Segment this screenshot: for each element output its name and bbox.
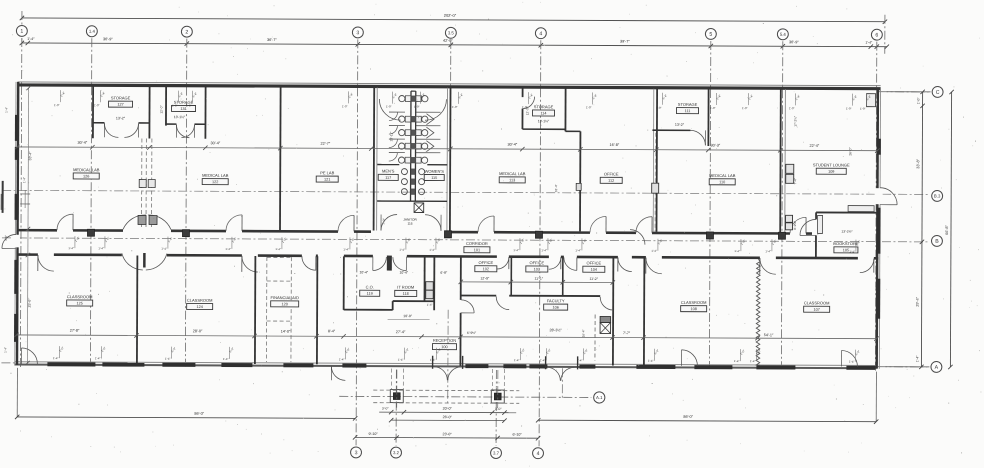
wall student lounge west: [780, 89, 785, 232]
double door corridor-lab122: [123, 215, 171, 230]
annotation specks corridor: [68, 236, 861, 254]
room OFFICE 103: [526, 260, 548, 272]
door classroom 107 north2: [860, 259, 874, 273]
svg-text:14′-0″: 14′-0″: [281, 330, 291, 334]
lavatory fixtures: [401, 169, 424, 195]
svg-text:1′-4″: 1′-4″: [734, 359, 740, 363]
svg-text:101: 101: [474, 248, 480, 252]
wall storage 131 left: [165, 87, 167, 126]
grid bubble B: [931, 235, 942, 246]
door classroom 108 north: [646, 258, 662, 274]
svg-text:3.2: 3.2: [393, 450, 400, 455]
double door corridor-classrooms: [122, 253, 167, 270]
room STORAGE 114: [532, 104, 554, 116]
svg-text:1′-4″: 1′-4″: [575, 248, 581, 252]
grid line 5: [709, 41, 710, 369]
svg-text:119: 119: [367, 292, 373, 296]
grid line 3.5: [449, 40, 452, 232]
storage 111 door: [690, 130, 705, 145]
svg-text:36′-9″: 36′-9″: [103, 37, 113, 41]
door classroom 107 south: [841, 351, 857, 367]
svg-text:8′-9½″: 8′-9½″: [793, 220, 797, 230]
svg-text:1′-0″: 1′-0″: [186, 104, 192, 108]
svg-text:120: 120: [281, 302, 287, 306]
svg-text:30′-3″: 30′-3″: [711, 143, 721, 147]
svg-text:C: C: [936, 90, 940, 96]
svg-text:116: 116: [407, 222, 412, 226]
svg-text:1′-4″: 1′-4″: [3, 347, 7, 353]
svg-text:1′-4″: 1′-4″: [540, 358, 546, 362]
svg-text:STORAGE: STORAGE: [678, 102, 698, 107]
grid line 2: [185, 39, 186, 367]
door financial aid: [302, 256, 316, 270]
svg-text:126: 126: [83, 175, 89, 179]
co door: [373, 256, 387, 270]
svg-text:3: 3: [355, 450, 358, 456]
svg-text:13′-2″: 13′-2″: [116, 116, 126, 120]
room MEDICAL LAB 110: [709, 173, 736, 185]
grid bubble 3.5: [445, 27, 456, 38]
main entry doors east pair: [547, 367, 575, 381]
svg-text:17′-2¾″: 17′-2¾″: [793, 115, 797, 127]
restroom mid wall: [377, 163, 447, 165]
svg-text:1′-0″: 1′-0″: [94, 103, 100, 107]
door medical lab 126: [57, 214, 73, 230]
janitor sink: [414, 203, 424, 213]
svg-text:39′-7″: 39′-7″: [620, 40, 630, 44]
top segment dimension line: [20, 37, 889, 49]
exterior door right wall: [875, 188, 898, 205]
svg-text:1′-0″: 1′-0″: [742, 106, 748, 110]
svg-text:1′-4″: 1′-4″: [430, 358, 436, 362]
svg-text:B: B: [935, 239, 939, 245]
svg-text:OFFICE: OFFICE: [604, 171, 619, 176]
door hall 618: [618, 258, 632, 272]
wall lab113-office112: [565, 131, 581, 231]
svg-text:6: 6: [875, 33, 878, 39]
wall storage 114 right: [564, 88, 566, 131]
svg-text:1′-4″: 1′-4″: [651, 249, 657, 253]
room MENS 117: [378, 169, 398, 181]
grid line B.3: [2, 190, 930, 194]
svg-text:STUDENT LOUNGE: STUDENT LOUNGE: [813, 162, 850, 167]
svg-text:1′-4″: 1′-4″: [513, 248, 519, 252]
svg-text:1.4: 1.4: [89, 29, 96, 34]
reception annotations: [427, 303, 477, 335]
svg-text:1′-4″: 1′-4″: [95, 356, 101, 360]
svg-text:54′-1″: 54′-1″: [764, 333, 774, 337]
door classroom 124: [242, 256, 258, 272]
grid line B: [2, 238, 930, 242]
storage 114 sill: [522, 128, 565, 130]
bookstore door: [800, 219, 816, 235]
grid line 1.4: [90, 38, 91, 366]
svg-text:20′-11″: 20′-11″: [389, 131, 393, 142]
svg-text:1′-4″: 1′-4″: [750, 359, 756, 363]
room PE LAB 121: [316, 170, 338, 182]
svg-text:86′-0″: 86′-0″: [194, 412, 204, 416]
svg-text:106: 106: [552, 306, 558, 310]
svg-text:OFFICE: OFFICE: [479, 260, 494, 265]
svg-text:1′-0″: 1′-0″: [586, 105, 592, 109]
wall storage 127 right / chase: [148, 87, 150, 139]
bookstore west wall: [815, 212, 817, 257]
bottom dimension 86'-0" west: [15, 368, 358, 421]
annotation specks top wall: [54, 90, 872, 111]
room OFFICE 104: [583, 260, 605, 272]
svg-text:10′-0″: 10′-0″: [403, 314, 412, 318]
svg-text:1′-4″: 1′-4″: [398, 358, 404, 362]
grid line C: [879, 91, 928, 93]
svg-text:113: 113: [509, 178, 515, 182]
svg-text:2: 2: [185, 30, 188, 36]
svg-text:1′-4″: 1′-4″: [399, 248, 405, 252]
svg-text:1′-0″: 1′-0″: [860, 107, 866, 111]
door office 103: [549, 257, 561, 269]
bottom dimension 86'-0" east: [536, 370, 879, 424]
room JANITOR 116: [403, 218, 417, 226]
svg-text:3.5: 3.5: [448, 30, 455, 35]
svg-text:9′-10″: 9′-10″: [369, 432, 379, 436]
svg-text:30′-4″: 30′-4″: [78, 141, 88, 145]
columns on corridor wall: [87, 229, 785, 239]
grid line 3: [356, 39, 358, 445]
co-it suite walls: [344, 256, 435, 310]
svg-text:3′-0″: 3′-0″: [4, 235, 8, 241]
svg-text:MEDICAL LAB: MEDICAL LAB: [202, 173, 229, 178]
svg-text:1: 1: [20, 29, 23, 35]
offices west wall: [459, 257, 461, 366]
svg-text:1′-4″: 1′-4″: [68, 246, 74, 250]
storage 131 doors: [176, 125, 194, 138]
financial aid dashed partition: [266, 257, 291, 362]
svg-text:1′-0″: 1′-0″: [710, 106, 716, 110]
wall storage 111 right: [707, 89, 709, 146]
svg-text:1′-4″: 1′-4″: [541, 248, 547, 252]
left margin marks: [1, 107, 31, 353]
right overall dimension 66'-8": [944, 90, 953, 369]
svg-text:10′-4″: 10′-4″: [399, 271, 408, 275]
overall top dimension line 202'-0": [20, 11, 888, 54]
svg-text:6′-10″: 6′-10″: [513, 433, 523, 437]
janitor wall: [377, 200, 447, 202]
svg-text:31′-4″: 31′-4″: [554, 183, 558, 192]
svg-text:29′-4″: 29′-4″: [916, 296, 920, 306]
storage 127 doors: [104, 123, 138, 137]
lounge vertical dims: [793, 115, 854, 234]
svg-text:11′-2″: 11′-2″: [589, 277, 598, 281]
svg-text:1′-4″: 1′-4″: [734, 249, 740, 253]
svg-text:3′-0″: 3′-0″: [495, 407, 502, 411]
svg-text:36′-7″: 36′-7″: [267, 38, 277, 42]
svg-text:1′-4″: 1′-4″: [22, 177, 26, 183]
svg-text:36′-9″: 36′-9″: [789, 40, 799, 44]
svg-text:1′-4″: 1′-4″: [98, 246, 104, 250]
room CORRIDOR 101: [464, 241, 490, 253]
svg-text:105: 105: [843, 248, 849, 252]
door student lounge 109: [790, 217, 806, 233]
svg-text:115: 115: [431, 176, 437, 180]
wall classroom125-124: [136, 255, 138, 363]
top exterior wall: [18, 82, 881, 89]
door bottom-left corner: [21, 348, 37, 364]
svg-text:23′-0″: 23′-0″: [443, 432, 453, 436]
svg-text:1′-0″: 1′-0″: [656, 106, 662, 110]
grid bubble 1.4: [86, 26, 97, 37]
svg-text:C.O.: C.O.: [366, 284, 374, 289]
room STUDENT LOUNGE 109: [813, 162, 850, 174]
svg-text:10′-4″: 10′-4″: [359, 270, 368, 274]
svg-text:28′-0″: 28′-0″: [193, 329, 203, 333]
office 102 rear door: [496, 297, 509, 310]
svg-text:13′-1½″: 13′-1½″: [174, 115, 186, 119]
bottom grid bubble 4: [533, 448, 544, 459]
office 104 rear door: [600, 297, 613, 310]
office dimension labels: [359, 270, 615, 320]
svg-text:33′-8″: 33′-8″: [916, 158, 920, 168]
svg-text:112: 112: [608, 179, 614, 183]
it room equipment rack: [426, 282, 434, 299]
room STORAGE 131: [172, 100, 196, 112]
wall classroom124-financial aid: [254, 256, 256, 364]
svg-text:3′-0″: 3′-0″: [382, 407, 389, 411]
room OFFICE 112: [600, 171, 622, 183]
restroom west wall: [374, 87, 378, 230]
svg-text:1′-4″: 1′-4″: [915, 355, 919, 363]
svg-text:5.4: 5.4: [780, 32, 787, 37]
room CLASSROOM 125: [67, 294, 93, 306]
room BOOKSTORE 105: [833, 241, 859, 253]
svg-text:26′-0″: 26′-0″: [848, 147, 852, 156]
svg-text:1′-0″: 1′-0″: [846, 107, 852, 111]
room CLASSROOM 124: [187, 298, 213, 310]
svg-text:16′-4″: 16′-4″: [582, 329, 586, 338]
svg-text:124: 124: [196, 305, 202, 309]
grid bubble A: [931, 361, 942, 372]
svg-text:A: A: [935, 365, 939, 371]
svg-text:6′-9½″: 6′-9½″: [467, 331, 477, 335]
restroom vertical dims: [382, 131, 393, 225]
svg-text:CORRIDOR: CORRIDOR: [466, 241, 488, 246]
svg-text:27′-8″: 27′-8″: [70, 329, 80, 333]
svg-text:B.3: B.3: [934, 193, 941, 198]
svg-text:1′-4″: 1′-4″: [577, 358, 583, 362]
svg-text:86′-0″: 86′-0″: [683, 415, 693, 419]
room RECEPTION 100: [432, 338, 456, 350]
door pe lab 121: [338, 215, 354, 231]
svg-text:1′-0″: 1′-0″: [917, 97, 921, 105]
svg-text:OFFICE: OFFICE: [530, 260, 545, 265]
classroom 108 door west: [630, 230, 645, 245]
grid line A: [878, 366, 927, 368]
svg-text:CLASSROOM: CLASSROOM: [804, 300, 830, 305]
co-it door stub: [387, 256, 392, 271]
grid bubble 1: [16, 25, 27, 36]
svg-text:MEN’S: MEN’S: [382, 169, 395, 174]
movable partition classrooms 108-107: [756, 259, 760, 365]
grid bubble 5.4: [777, 29, 788, 40]
room IT ROOM 118: [395, 285, 417, 297]
svg-text:33′-4″: 33′-4″: [28, 151, 32, 161]
svg-text:122: 122: [212, 180, 218, 184]
svg-text:1′-4″: 1′-4″: [765, 249, 771, 253]
restroom corridor doors: [381, 215, 441, 231]
svg-text:109: 109: [828, 170, 834, 174]
entry recess jambs: [433, 356, 578, 370]
svg-text:108: 108: [690, 307, 696, 311]
reception door centerlines: [448, 310, 563, 406]
room FINANCIAL AID 120: [271, 295, 299, 307]
svg-text:1′-4″: 1′-4″: [343, 247, 349, 251]
svg-text:1′-0″: 1′-0″: [54, 103, 60, 107]
svg-text:1′-4″: 1′-4″: [339, 357, 345, 361]
bottom exterior wall: [14, 362, 876, 369]
room CLASSROOM 107: [804, 300, 830, 312]
door medical lab 113: [478, 216, 494, 232]
svg-text:1′-4″: 1′-4″: [429, 248, 435, 252]
svg-text:MEDICAL LAB: MEDICAL LAB: [73, 167, 100, 172]
door classroom 125: [38, 255, 54, 271]
svg-text:1′-4″: 1′-4″: [161, 247, 167, 251]
grid bubble A.1: [594, 392, 605, 403]
svg-text:118: 118: [403, 292, 409, 296]
svg-text:7′-4″: 7′-4″: [793, 177, 797, 184]
room MEDICAL LAB 122: [202, 173, 229, 185]
financial aid east wall: [316, 256, 318, 364]
svg-text:22′-7″: 22′-7″: [321, 142, 331, 146]
svg-text:RECEPTION: RECEPTION: [433, 338, 456, 343]
wall storage 114 left: [521, 109, 523, 129]
bottom grid bubble 3.7: [491, 448, 502, 459]
svg-text:1′-4″: 1′-4″: [223, 357, 229, 361]
svg-text:121: 121: [324, 178, 330, 182]
svg-text:12′-9″: 12′-9″: [480, 276, 490, 280]
svg-text:STORAGE: STORAGE: [111, 95, 131, 100]
svg-text:42′-0″: 42′-0″: [443, 39, 453, 43]
left interior vertical dims: [25, 86, 32, 365]
svg-text:1′-4″: 1′-4″: [849, 360, 855, 364]
room WOMENS 115: [424, 169, 444, 181]
svg-text:FACULTY: FACULTY: [547, 298, 565, 303]
electrical closet: [595, 314, 611, 360]
grid bubble C: [932, 86, 943, 97]
svg-text:1′-4″: 1′-4″: [849, 250, 855, 254]
svg-text:111: 111: [685, 109, 691, 113]
storage 114 door: [523, 97, 535, 109]
office divider 103-104: [562, 257, 564, 295]
door financial aid exterior: [331, 366, 345, 380]
porch column east: [491, 370, 504, 408]
svg-text:11′-1″: 11′-1″: [534, 277, 543, 281]
svg-text:125: 125: [76, 301, 82, 305]
svg-text:PE LAB: PE LAB: [320, 170, 334, 175]
wall storage 131 right: [204, 87, 206, 139]
exterior door left wall: [2, 234, 20, 248]
svg-text:202′-0″: 202′-0″: [444, 13, 457, 18]
svg-text:OFFICE: OFFICE: [587, 260, 602, 265]
corridor south wall: [17, 255, 878, 259]
room MEDICAL LAB 113: [499, 171, 526, 183]
bookstore shelving: [817, 205, 874, 233]
bottom rooms dimension chain: [14, 326, 878, 341]
svg-text:1′-4″: 1′-4″: [865, 41, 873, 45]
grid bubble B.3: [932, 190, 943, 201]
svg-text:7′-0″: 7′-0″: [382, 217, 386, 224]
svg-text:12′-0″: 12′-0″: [160, 105, 164, 114]
right dimension chain: [885, 90, 930, 370]
restroom plumbing wall: [411, 91, 416, 201]
misc small dims: [554, 183, 587, 337]
svg-text:6′-8″: 6′-8″: [440, 271, 448, 275]
door office 102: [497, 257, 509, 269]
svg-text:16′-8″: 16′-8″: [610, 143, 620, 147]
left wall window segments: [14, 115, 19, 342]
storage 127 sill: [93, 122, 104, 124]
room FACULTY 106: [544, 298, 568, 310]
svg-text:1′-0″: 1′-0″: [386, 105, 392, 109]
porch column west: [390, 370, 403, 408]
grid bubble 5: [705, 28, 716, 39]
svg-text:1′-4″: 1′-4″: [165, 357, 171, 361]
corridor north wall: [17, 230, 812, 233]
grid bubble 2: [181, 26, 192, 37]
svg-text:1′-4″: 1′-4″: [27, 37, 35, 41]
left exterior wall: [15, 82, 18, 365]
svg-text:4: 4: [539, 31, 542, 37]
svg-text:MEDICAL LAB: MEDICAL LAB: [499, 171, 526, 176]
svg-text:FINANCIAL AID: FINANCIAL AID: [271, 295, 299, 300]
storage dimension labels: [116, 104, 685, 126]
svg-text:1′-0″: 1′-0″: [789, 106, 795, 110]
office divider 102-103: [510, 257, 512, 295]
svg-text:1′-0″: 1′-0″: [342, 104, 348, 108]
classroom 108 west wall: [643, 258, 645, 366]
lounge corner cabinet: [867, 94, 876, 107]
faculty west door: [461, 300, 475, 313]
drinking fountains: [786, 164, 794, 230]
wall between lab 122 and pe lab 121: [279, 87, 282, 230]
porch dimension lines: [353, 406, 541, 440]
svg-text:4: 4: [537, 451, 540, 457]
room STORAGE 127: [109, 95, 133, 107]
svg-text:1′-4″: 1′-4″: [5, 107, 9, 113]
top rooms dimension chain: [15, 140, 879, 152]
svg-text:66′-8″: 66′-8″: [945, 224, 949, 234]
grid line 3.7: [495, 370, 497, 446]
room STORAGE 111: [677, 102, 699, 114]
svg-text:27′-4″: 27′-4″: [396, 330, 406, 334]
grid line 6: [875, 42, 876, 372]
svg-text:28′-3½″: 28′-3½″: [549, 328, 562, 332]
svg-text:13′-2½″: 13′-2½″: [841, 230, 853, 234]
door office 112: [590, 216, 606, 232]
grid line 5.4: [781, 41, 782, 369]
grid line 4: [539, 40, 541, 446]
room CLASSROOM 108: [681, 300, 707, 312]
svg-text:26′-0″: 26′-0″: [443, 415, 453, 419]
room OFFICE 102: [475, 260, 497, 272]
svg-text:MEDICAL LAB: MEDICAL LAB: [709, 173, 736, 178]
svg-text:127: 127: [117, 103, 123, 107]
svg-text:114: 114: [540, 112, 546, 116]
svg-text:A.1: A.1: [596, 395, 603, 400]
svg-text:25′-0″: 25′-0″: [28, 298, 32, 308]
bottom grid bubble 3: [351, 447, 362, 458]
right exterior wall: [877, 88, 881, 369]
storage 111 sill: [652, 129, 690, 131]
grid bubble 4: [535, 28, 546, 39]
svg-text:3: 3: [356, 30, 359, 36]
